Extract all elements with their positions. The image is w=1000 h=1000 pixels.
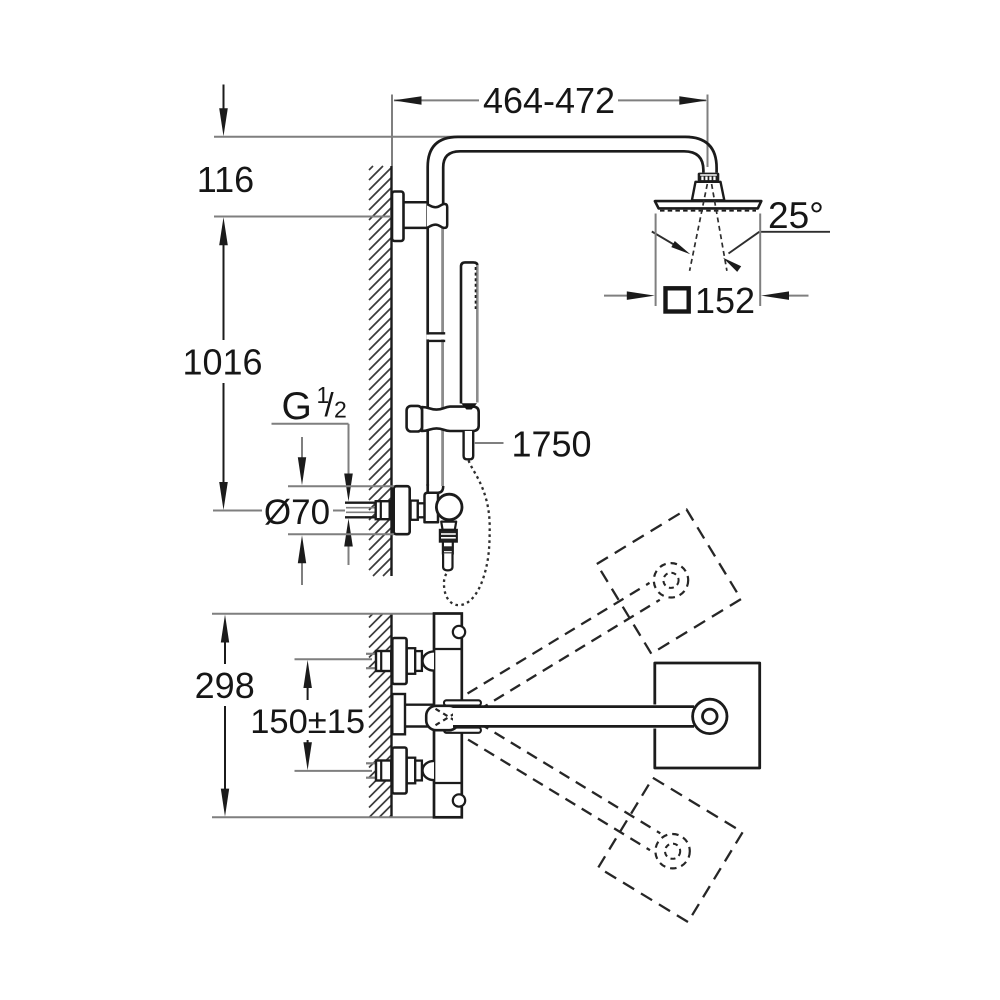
extension lines for 298 bbox=[212, 614, 433, 818]
angle callout left line bbox=[652, 232, 691, 255]
extension lines for 152 bbox=[656, 214, 761, 307]
reference line at arm top bbox=[214, 136, 690, 138]
slider bracket body bbox=[422, 407, 479, 431]
diverter neck bbox=[441, 522, 456, 530]
dashed head square lower bbox=[598, 778, 742, 922]
dimension line 150 bbox=[303, 660, 312, 770]
extension lines for 150 bbox=[295, 659, 373, 771]
svg-text:G: G bbox=[282, 385, 312, 428]
diverter ribbed ring bbox=[440, 530, 457, 542]
extension line left of 464-472 dim bbox=[391, 95, 393, 167]
dashed lines crossing at pivot bbox=[436, 709, 456, 725]
dia70 axis dash right bbox=[333, 510, 345, 512]
valve inlet block bbox=[425, 493, 439, 522]
pivot tab top bbox=[444, 700, 481, 705]
dimension text 116 bbox=[197, 159, 254, 200]
valve body (plan) bbox=[434, 614, 462, 818]
dashed pivot circle upper bbox=[654, 563, 688, 597]
angle leader under text bbox=[759, 231, 830, 233]
head square (plan) bbox=[655, 663, 760, 768]
dashed head square upper bbox=[597, 509, 741, 653]
hand shower handle bbox=[461, 262, 477, 403]
supply union nut in wall bbox=[376, 501, 390, 519]
svg-text:152: 152 bbox=[695, 280, 755, 321]
svg-text:2: 2 bbox=[334, 397, 347, 423]
riser elbow bbox=[428, 484, 444, 494]
extension line right of 464-472 dim bbox=[707, 95, 709, 168]
wall face line (plan) bbox=[390, 614, 392, 818]
svg-text:25°: 25° bbox=[768, 195, 824, 236]
wall holder arm bbox=[402, 202, 428, 228]
leader line for 1750 bbox=[475, 442, 504, 444]
hand shower cone tip bbox=[461, 403, 477, 409]
spray cone dashed lines bbox=[690, 184, 727, 271]
pivot housing lines bbox=[405, 705, 434, 727]
wall hatching (elevation) bbox=[369, 166, 392, 576]
dimension text dia70 bbox=[264, 493, 330, 532]
spout tip (plan) bbox=[703, 709, 718, 724]
reference line at supply axis bbox=[213, 510, 262, 512]
head pivot outer circle (plan) bbox=[693, 699, 727, 733]
valve escutcheon (elevation) bbox=[394, 486, 410, 534]
angle text 25deg bbox=[768, 195, 824, 236]
pivot ball housing bbox=[426, 706, 459, 730]
arrow for 116 dim bbox=[219, 85, 228, 137]
dimension line 152 bbox=[604, 291, 809, 300]
diverter outlet stub bbox=[443, 553, 452, 570]
dimension text 1750 bbox=[511, 424, 591, 465]
valve union nut bbox=[411, 501, 425, 520]
shower arm and riser pipe outline bbox=[428, 137, 717, 486]
riser pipe joint bbox=[427, 333, 446, 341]
angle callout right line bbox=[723, 232, 760, 272]
square symbol for 152 bbox=[666, 288, 689, 311]
svg-text:1750: 1750 bbox=[511, 424, 591, 465]
dimension text 150+-15 bbox=[250, 703, 365, 741]
supply connection top (plan) bbox=[366, 638, 434, 684]
dimension text 152 bbox=[695, 280, 755, 321]
dashed arm lower bbox=[452, 713, 661, 850]
svg-text:464-472: 464-472 bbox=[483, 80, 615, 121]
thermostat knob bbox=[436, 494, 462, 520]
svg-text:116: 116 bbox=[197, 159, 254, 200]
extension lines for dia70 bbox=[288, 486, 394, 534]
shower hose bbox=[444, 461, 490, 606]
label G 1/2 bbox=[282, 382, 347, 428]
svg-text:1016: 1016 bbox=[182, 342, 262, 383]
svg-text:150±15: 150±15 bbox=[250, 703, 365, 741]
screw notch bottom bbox=[453, 794, 465, 806]
dashed arm upper bbox=[451, 583, 660, 721]
spout (plan) bbox=[453, 707, 700, 727]
svg-text:298: 298 bbox=[195, 665, 255, 706]
hand shower holder stub bbox=[464, 431, 474, 459]
pivot tab bottom bbox=[444, 728, 481, 733]
head neck bbox=[692, 182, 724, 201]
dimension line 1016 bbox=[219, 217, 228, 510]
slider knob bbox=[407, 406, 422, 432]
arrows for dia70 bbox=[298, 437, 306, 585]
wall face line (elevation) bbox=[390, 166, 392, 576]
supply connection bottom (plan) bbox=[366, 748, 434, 794]
svg-text:/: / bbox=[325, 386, 335, 423]
wall holder pipe collar bbox=[427, 204, 447, 228]
dimension line 298 bbox=[221, 615, 229, 817]
svg-text:Ø70: Ø70 bbox=[264, 493, 330, 532]
screw notch top bbox=[453, 626, 465, 638]
shower head plate bbox=[655, 201, 761, 211]
wall holder escutcheon bbox=[392, 192, 404, 242]
dashed pivot circle lower bbox=[655, 834, 689, 868]
G 1/2 leader bbox=[272, 424, 353, 565]
wall hatching (plan) bbox=[369, 614, 392, 818]
dimension text 1016 bbox=[182, 342, 262, 383]
arm ball joint ring and swivel nut bbox=[698, 173, 720, 182]
dimension text 298 bbox=[195, 665, 255, 706]
diverter stem bbox=[443, 542, 453, 554]
supply pipe stub (elevation) bbox=[345, 503, 377, 518]
reference line at wall holder bbox=[214, 216, 394, 218]
dimension line 464-472 bbox=[394, 96, 708, 105]
dimension text 464-472 bbox=[483, 80, 615, 121]
centre wall plate (plan) bbox=[392, 694, 405, 734]
